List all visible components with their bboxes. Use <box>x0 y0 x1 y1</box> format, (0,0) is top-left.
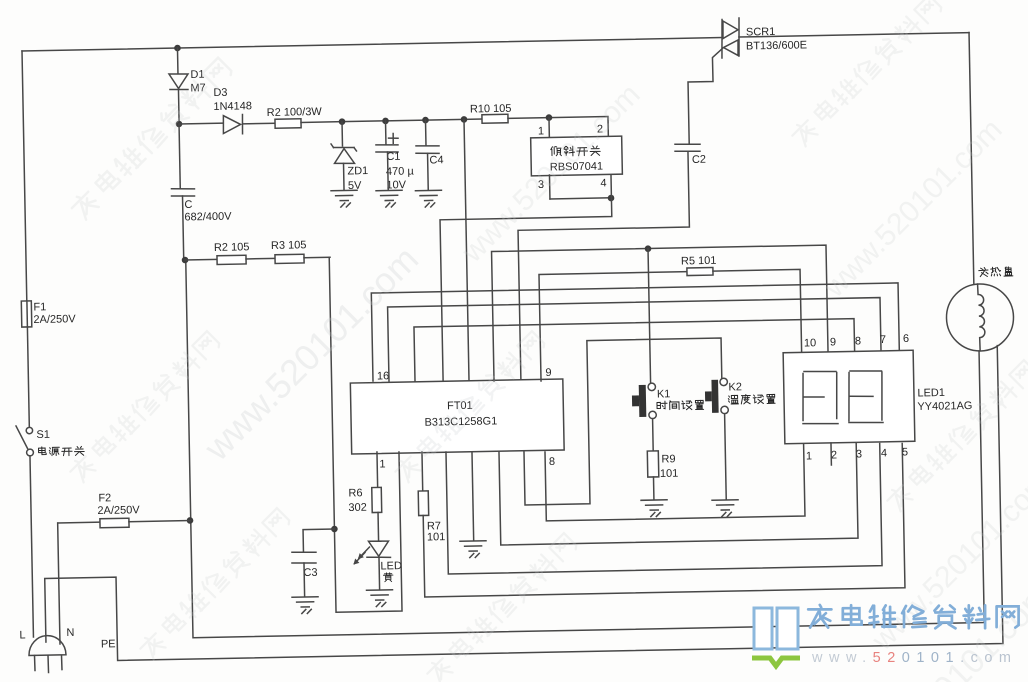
svg-text:BT136/600E: BT136/600E <box>746 39 807 52</box>
heater plate circle <box>946 283 1014 351</box>
svg-text:C4: C4 <box>429 154 443 166</box>
resistor R7 <box>418 491 428 516</box>
tilt switch box (RBS07041) <box>531 136 623 176</box>
fuse F1 <box>21 301 31 327</box>
resistor R5 <box>687 267 713 275</box>
svg-text:LED: LED <box>380 560 402 572</box>
svg-text:R2 105: R2 105 <box>214 241 250 254</box>
wire: FT01 pin3 to R7 <box>421 452 424 491</box>
node: R10 junction <box>461 116 468 123</box>
wire: R9 to ground <box>652 477 654 499</box>
wire: LED1 pin2 stub <box>830 443 832 465</box>
wire: R3 to pin2 riser <box>304 256 330 258</box>
wire: C2 to FT01 pin 10 <box>517 152 693 382</box>
wire: LED to ground <box>378 557 381 589</box>
wire: top-left corner to F1 <box>22 51 27 301</box>
capacitor C1 (electrolytic, + mark) <box>376 143 398 146</box>
wire: top rail to D1 <box>176 48 178 73</box>
pushbutton K2 contacts <box>720 378 728 386</box>
svg-text:R9: R9 <box>661 453 675 465</box>
wire: FT01 pin6 to LED1 pin3 <box>499 443 858 545</box>
svg-text:2A/250V: 2A/250V <box>33 313 76 326</box>
svg-text:302: 302 <box>348 502 367 514</box>
wire: FT01 pin15 to LED1 pin7 <box>388 298 882 381</box>
mains plug <box>29 635 66 655</box>
svg-text:101: 101 <box>427 531 446 543</box>
svg-text:6: 6 <box>903 333 909 345</box>
diode D3 <box>223 115 241 133</box>
node: C1 junction <box>382 118 389 125</box>
wire: FT01 pin7 to K2 net <box>522 338 724 505</box>
diode D1 <box>169 74 188 89</box>
wire: FT01 pin4 to LED1 pin4 <box>446 444 882 575</box>
wire: node to C4 <box>425 120 427 145</box>
switch S1 contacts <box>26 427 33 434</box>
LED1 left digit segments <box>804 371 836 372</box>
svg-text:L: L <box>19 629 25 641</box>
wire: FT01 pin16 to LED1 pin6 <box>371 283 899 381</box>
wire: R10 to tilt switch pins 1-2 <box>508 116 608 138</box>
wire: FT01 pin2 to R3/C3 node <box>329 256 402 612</box>
IC LED1 display box <box>783 350 915 443</box>
ground (C1) <box>376 189 402 191</box>
node: R2-105 row junction <box>182 257 189 264</box>
svg-text:101: 101 <box>660 468 679 480</box>
wire: R2 to R3 <box>246 257 275 260</box>
wire: C1 to ground <box>387 152 390 190</box>
pushbutton K2 plunger <box>711 380 718 413</box>
wire: C3 to ground <box>303 563 306 596</box>
node: K1 junction <box>645 245 652 252</box>
label fare pan (heater plate) <box>979 267 1013 277</box>
ground (ZD1) <box>331 189 357 191</box>
svg-text:SCR1: SCR1 <box>746 26 776 39</box>
svg-text:1: 1 <box>538 125 544 137</box>
node: tilt pin1 junction <box>546 114 553 121</box>
capacitor C2 <box>675 143 700 146</box>
svg-text:PE: PE <box>101 638 116 650</box>
wire: through F1 <box>26 301 29 327</box>
svg-text:R6: R6 <box>348 487 362 499</box>
wire: tilt pin3-pin4 link <box>550 198 611 199</box>
triac SCR1 <box>721 19 723 58</box>
svg-text:10: 10 <box>804 337 816 349</box>
wire: FT01 pin14 to LED1 pin8 <box>414 319 855 381</box>
wire: R7 to LED1 pin5 <box>422 443 905 596</box>
resistor R10 <box>482 114 508 123</box>
LED1 right digit segments <box>850 370 882 371</box>
wire: FT01 pin8 to LED1 pin1 <box>545 444 805 521</box>
capacitor C 682/400V <box>171 187 194 190</box>
wire: node to ZD1 <box>341 122 343 146</box>
wire: D3 to R2 <box>243 122 275 125</box>
svg-text:ZD1: ZD1 <box>347 165 368 177</box>
fuse F2 <box>100 518 129 528</box>
node: tilt pin 4 junction <box>608 195 615 202</box>
label qingxie kaiguan (tilt switch) <box>551 146 601 157</box>
wire: R5 to LED1 pin10 <box>713 269 802 353</box>
resistor R2 100/3W <box>275 119 301 128</box>
wire: D1 to node B <box>177 90 180 124</box>
wire: SCR1 gate to C2 <box>687 48 724 143</box>
svg-text:C3: C3 <box>303 567 317 579</box>
node: ZD1 junction <box>339 118 346 125</box>
node: C3 junction <box>331 526 338 533</box>
svg-text:8: 8 <box>549 456 555 468</box>
label huang (yellow) <box>383 573 393 582</box>
svg-text:5: 5 <box>902 446 908 458</box>
wire: K2 to ground <box>725 414 727 500</box>
svg-text:K1: K1 <box>657 388 671 400</box>
LED (yellow indicator) <box>368 541 388 557</box>
wire: S1 to plug L <box>30 456 33 637</box>
label wendu shezhi (temp set) <box>728 394 775 404</box>
wire: tilt pin 4 to FT01 pin 13 <box>439 175 615 381</box>
wire: node to C3 <box>303 529 335 552</box>
wire: FT01 pin5 to ground <box>472 452 474 540</box>
wire PE: plug earth to heater body <box>41 346 1003 662</box>
wire: F2 to node <box>129 521 190 522</box>
IC U1 FT01 box <box>350 379 564 454</box>
ground (C3) <box>292 596 318 598</box>
svg-text:F1: F1 <box>33 301 46 313</box>
wire: ZD1 to ground <box>343 163 346 190</box>
svg-text:www.520101.com: www.520101.com <box>811 650 1017 666</box>
svg-text:9: 9 <box>545 367 551 379</box>
svg-text:1N4148: 1N4148 <box>213 100 252 113</box>
ground (K2) <box>712 499 738 501</box>
svg-text:1: 1 <box>806 450 812 462</box>
svg-text:LED1: LED1 <box>917 387 945 400</box>
heater coil <box>978 284 986 350</box>
resistor R3 105 <box>275 254 304 263</box>
svg-text:4: 4 <box>600 177 606 189</box>
wire L: top rail from top-left corner to SCR1 <box>22 38 722 51</box>
svg-text:R2 100/3W: R2 100/3W <box>267 106 323 119</box>
wire: node to K1 <box>648 249 651 384</box>
svg-text:YY4021AG: YY4021AG <box>917 400 972 413</box>
svg-text:K2: K2 <box>728 381 742 393</box>
ground (FT01 pin5) <box>460 540 486 542</box>
resistor R9 <box>647 451 658 477</box>
label shijian shezhi (time set) <box>657 400 704 410</box>
wire: 5V rail to FT01 pin 12 <box>464 119 469 381</box>
wire: FT01 pin1 to R6 <box>376 452 379 487</box>
switch S1 lever <box>16 426 28 449</box>
wire: heater to N return <box>186 245 985 638</box>
svg-text:F2: F2 <box>98 492 111 504</box>
wire: right border down to heater <box>969 33 974 285</box>
svg-text:8: 8 <box>855 335 861 347</box>
wire: plug N up to F2 <box>58 523 60 644</box>
svg-text:4: 4 <box>881 447 887 459</box>
capacitor C3 <box>292 551 316 554</box>
svg-text:470 µ: 470 µ <box>386 165 415 178</box>
wire: FT01 pin9 to R5 <box>539 272 689 381</box>
wire: node to C1 <box>385 121 387 145</box>
svg-text:2A/250V: 2A/250V <box>97 504 140 517</box>
svg-text:3: 3 <box>856 448 862 460</box>
site logo (decorative) <box>754 608 798 649</box>
wire: node B to capacitor C <box>179 124 180 188</box>
ground (R9) <box>641 499 667 501</box>
wire: node to R2(105) <box>185 258 217 261</box>
svg-text:D3: D3 <box>213 87 227 99</box>
ground (C4) <box>415 189 441 191</box>
label dianyuan kaiguan (power switch) <box>39 446 85 456</box>
wire: K1 to R9 <box>652 419 655 451</box>
svg-text:www.520101.com: www.520101.com <box>817 113 1008 304</box>
node: C4 junction <box>422 117 429 124</box>
svg-text:16: 16 <box>377 370 389 382</box>
svg-text:1: 1 <box>379 458 385 470</box>
wire: SCR1 to top-right corner <box>739 33 969 37</box>
resistor R2 105 <box>217 255 246 264</box>
node B: D1/D3/C junction <box>176 121 183 128</box>
svg-text:R10 105: R10 105 <box>470 103 512 116</box>
svg-text:7: 7 <box>880 334 886 346</box>
wire: R2 to 5V rail nodes <box>301 119 482 122</box>
wire: N to F2 <box>58 521 100 524</box>
svg-text:C: C <box>184 199 192 211</box>
wire: F1 to S1 <box>27 327 29 427</box>
svg-text:R5 101: R5 101 <box>681 255 717 268</box>
svg-text:S1: S1 <box>36 429 50 441</box>
ground (LED) <box>367 589 393 591</box>
wire: C4 to ground <box>427 153 430 190</box>
wire: capacitor C down to node C (R2 row) <box>183 196 184 260</box>
pushbutton K1 contacts <box>648 383 656 391</box>
wire: tilt pin 3 down <box>548 175 550 199</box>
wire: FT01 pin11 / K1 / LED1 pin9 net <box>492 245 829 381</box>
pushbutton K1 plunger <box>639 385 647 417</box>
zener diode ZD1 <box>334 146 355 149</box>
resistor R6 <box>372 487 382 512</box>
capacitor C4 <box>416 144 439 147</box>
node A: top rail / D1 junction <box>174 45 181 52</box>
wire: R6 to LED <box>377 512 380 541</box>
wire: node B to D3 <box>179 122 223 125</box>
svg-text:682/400V: 682/400V <box>184 211 232 224</box>
node: F2 junction <box>187 517 194 524</box>
svg-text:9: 9 <box>830 336 836 348</box>
svg-text:R3 105: R3 105 <box>271 239 307 252</box>
svg-text:C2: C2 <box>692 154 706 166</box>
svg-text:N: N <box>66 627 74 639</box>
wire: tilt switch pin 1 riser <box>548 118 550 137</box>
